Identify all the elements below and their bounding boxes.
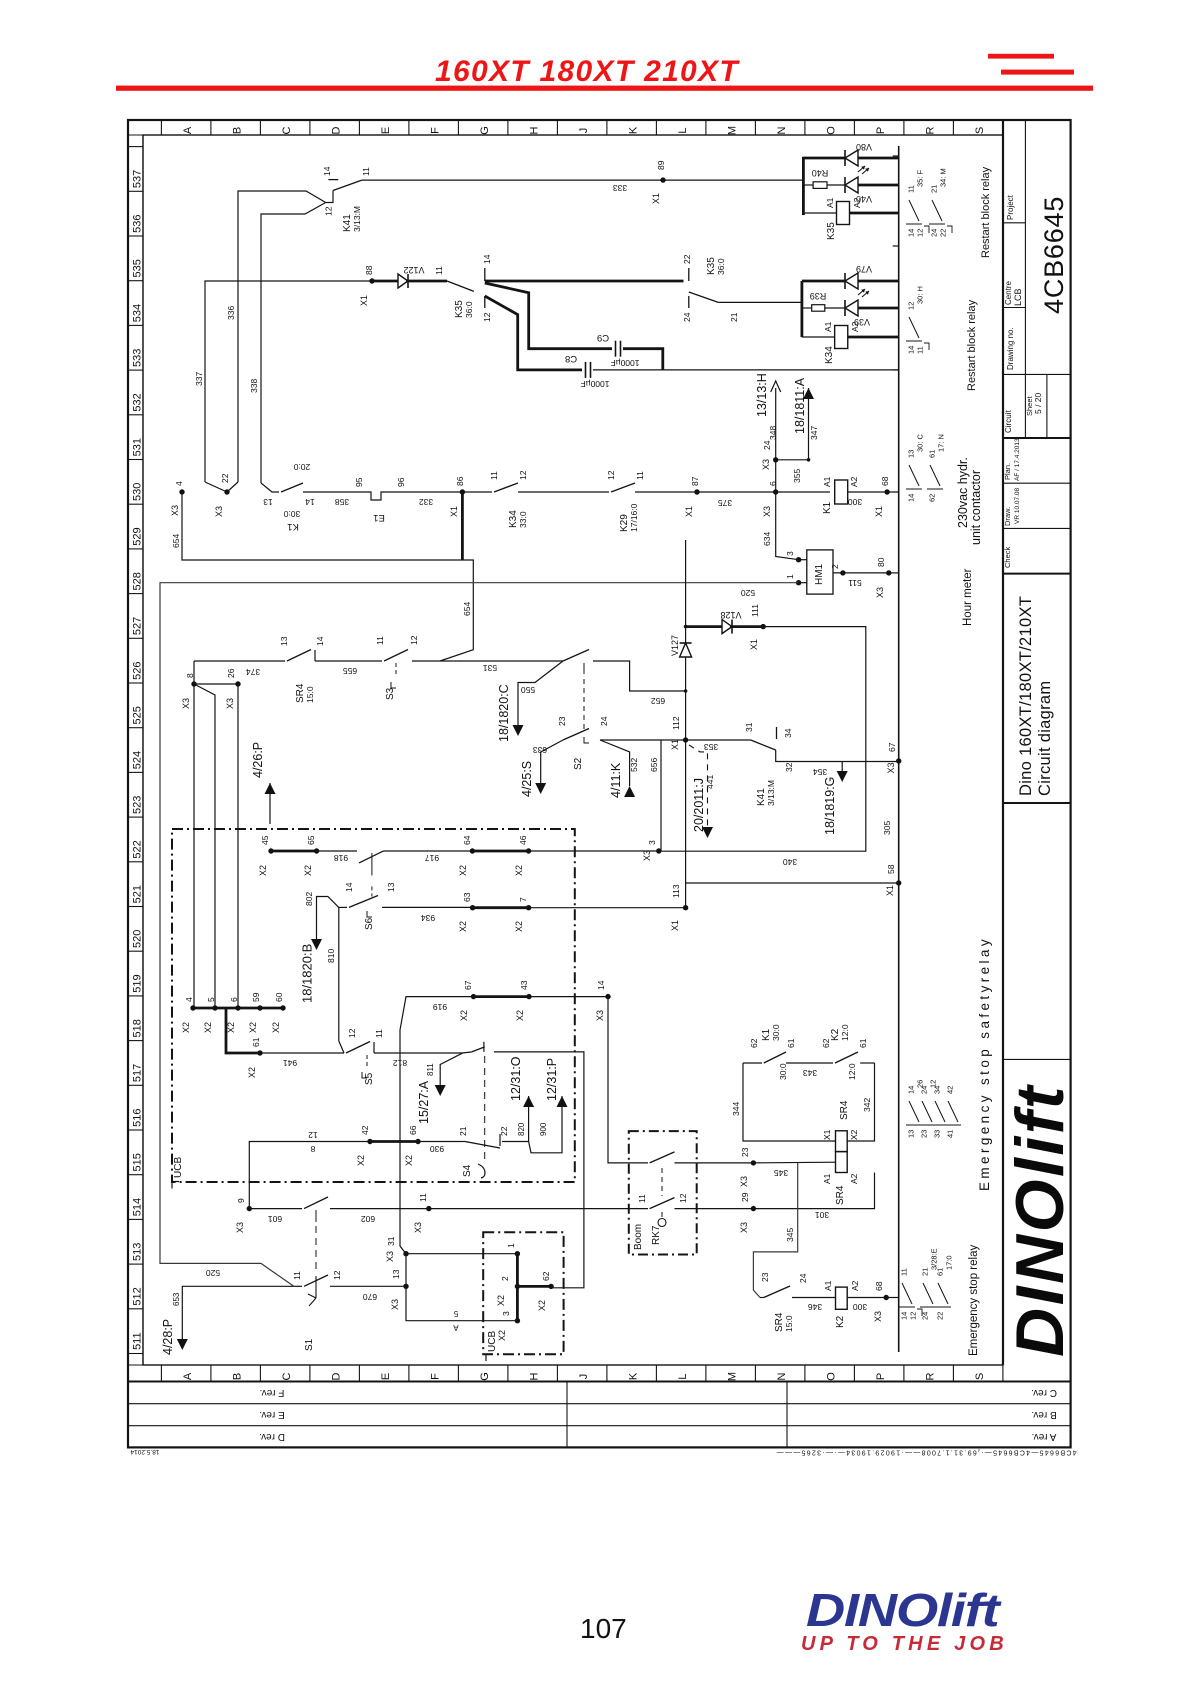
RK7 mechanical link (661, 1168, 663, 1196)
column label D top (309, 120, 311, 135)
svg-text:333: 333 (613, 183, 627, 193)
svg-text:X3: X3 (739, 1222, 749, 1233)
switch S1 lower contact with mechanical link (315, 1226, 317, 1272)
wire C8-C9 return to rail (593, 369, 899, 371)
svg-text:X2: X2 (271, 1022, 281, 1033)
svg-text:4CB6645—4CB6645—·⁁69.31.1.7008: 4CB6645—4CB6645—·⁁69.31.1.7008——·19029.1… (775, 1449, 1076, 1456)
wire 634 riser (776, 492, 799, 560)
diode V127 (680, 643, 692, 657)
sheet reference arrow 18/1819:G (841, 762, 843, 773)
svg-text:347: 347 (809, 426, 819, 440)
svg-text:527: 527 (132, 617, 144, 635)
wire 4/25:S branch (541, 740, 563, 784)
svg-text:61: 61 (858, 1038, 868, 1048)
terminal X1:68 (884, 489, 889, 494)
terminal bus X2:4 X2:5 X2:6 X2:59 X2:60 (193, 1007, 283, 1010)
svg-text:30:0: 30:0 (283, 509, 300, 519)
svg-text:18.5.2014: 18.5.2014 (130, 1448, 159, 1455)
svg-text:3: 3 (501, 1311, 511, 1316)
svg-text:X2: X2 (258, 865, 268, 876)
svg-text:42: 42 (946, 1086, 955, 1094)
svg-text:X1: X1 (670, 739, 680, 750)
column label B bottom (210, 1365, 212, 1382)
svg-text:42: 42 (360, 1125, 370, 1135)
wire 344 (743, 1063, 836, 1141)
column label C bottom (259, 1365, 261, 1382)
wire 941 (260, 1052, 344, 1054)
svg-text:J: J (578, 1374, 590, 1380)
svg-text:13: 13 (263, 497, 273, 507)
svg-text:88: 88 (364, 265, 374, 275)
column label S bottom (952, 1365, 954, 1382)
wire 354 row to X3:67 (776, 750, 899, 762)
svg-text:528: 528 (132, 572, 144, 590)
wire 670 (330, 1285, 406, 1287)
svg-text:12: 12 (332, 1270, 342, 1280)
svg-text:6: 6 (229, 997, 239, 1002)
svg-text:113: 113 (671, 884, 681, 898)
wire coil K2 to X3:68 (847, 1297, 899, 1299)
K34 lamp group left bus (801, 281, 804, 337)
svg-text:M: M (727, 126, 739, 135)
contact SR4 13-14 (15:0) (287, 650, 311, 662)
svg-text:529: 529 (132, 527, 144, 545)
svg-text:354: 354 (813, 767, 827, 777)
contact K1 13-14 (261, 483, 279, 492)
thick branch to X2:61 (226, 1008, 260, 1053)
resistor R39 (802, 307, 812, 309)
sheet reference arrow 4/28:P 653 (182, 1286, 293, 1340)
svg-text:X1: X1 (651, 193, 661, 204)
wire RK7 to X3:29 (697, 1208, 754, 1210)
svg-text:H: H (529, 126, 541, 134)
row label 532 (128, 369, 143, 371)
svg-text:652: 652 (651, 696, 665, 706)
svg-text:14: 14 (305, 497, 315, 507)
svg-text:14: 14 (344, 882, 354, 892)
svg-text:12: 12 (324, 206, 334, 216)
capacitor C8 1000uF (585, 362, 587, 378)
svg-text:14: 14 (315, 636, 325, 646)
svg-text:601: 601 (268, 1214, 282, 1224)
svg-text:3/13:M: 3/13:M (352, 206, 362, 232)
svg-text:441: 441 (705, 775, 715, 789)
svg-text:24: 24 (930, 229, 939, 237)
svg-text:33: 33 (933, 1130, 942, 1138)
svg-text:X3: X3 (739, 1176, 749, 1187)
wire 917 (383, 850, 472, 852)
svg-text:533: 533 (132, 349, 144, 367)
bottom ruler band line (128, 1364, 1003, 1366)
wire 337 (205, 281, 372, 482)
svg-text:H: H (529, 1372, 541, 1380)
svg-text:43: 43 (519, 980, 529, 990)
svg-text:X2: X2 (515, 1010, 525, 1021)
wire 374 row (194, 660, 285, 662)
svg-text:23: 23 (920, 1130, 929, 1138)
svg-text:12: 12 (308, 1130, 318, 1140)
svg-text:634: 634 (762, 532, 772, 546)
svg-text:22: 22 (939, 229, 948, 237)
svg-text:41: 41 (946, 1130, 955, 1138)
contact K35 22-24-21 (688, 268, 690, 281)
svg-text:K34: K34 (824, 346, 835, 364)
svg-text:Restart block relay: Restart block relay (980, 166, 992, 258)
svg-text:930: 930 (430, 1144, 444, 1154)
svg-text:A: A (182, 126, 194, 134)
svg-text:X2: X2 (497, 1330, 507, 1341)
wire 601 (249, 1208, 302, 1210)
svg-text:R: R (925, 1372, 937, 1380)
svg-text:23: 23 (557, 716, 567, 726)
svg-text:1: 1 (506, 1243, 516, 1248)
svg-text:34: M: 34: M (939, 168, 948, 187)
svg-text:13: 13 (279, 636, 289, 646)
svg-text:11: 11 (907, 185, 916, 193)
header logo red bar upper (988, 54, 1054, 59)
svg-text:602: 602 (361, 1214, 375, 1224)
LED V39 (845, 300, 858, 316)
svg-text:A: A (453, 1323, 459, 1332)
svg-text:C9: C9 (597, 332, 609, 343)
wire 355 to coil K1 (776, 491, 830, 493)
column label N top (754, 120, 756, 135)
wires X3:8/X3:26 risers to X2 bus (193, 684, 195, 1008)
row label 523 (128, 771, 143, 773)
svg-text:14: 14 (907, 229, 916, 237)
switch S4 mechanical link (484, 1056, 486, 1160)
svg-text:14: 14 (907, 1086, 916, 1094)
svg-text:22: 22 (499, 1126, 509, 1136)
row label 531 (128, 414, 143, 416)
svg-text:O: O (826, 126, 838, 135)
svg-text:X3: X3 (235, 1222, 245, 1233)
svg-text:A2: A2 (852, 197, 862, 208)
row label 520 (128, 906, 143, 908)
svg-text:X3: X3 (595, 1010, 605, 1021)
wire 301 to SR4 A2 (753, 1173, 874, 1209)
svg-text:AF / 17.4.2013: AF / 17.4.2013 (1014, 438, 1021, 481)
row label 537 (128, 146, 143, 148)
wire 810 (338, 907, 340, 1041)
svg-text:12: 12 (482, 312, 492, 322)
svg-text:654: 654 (171, 534, 181, 548)
svg-text:D rev.: D rev. (259, 1431, 285, 1442)
wire K35:21 to K34 lamp group (718, 301, 802, 303)
svg-text:3/13:M: 3/13:M (766, 780, 776, 806)
svg-text:520: 520 (206, 1268, 220, 1278)
relay coil K1 A1-A2 (835, 480, 848, 504)
svg-text:4: 4 (184, 997, 194, 1002)
column label B top (210, 120, 212, 135)
wire thick to V128 (686, 625, 722, 628)
sheet reference arrow 18/1811:A (803, 388, 814, 399)
svg-text:X3: X3 (762, 506, 772, 517)
wire to C8 (485, 296, 582, 370)
svg-text:V128: V128 (720, 610, 741, 620)
svg-text:340: 340 (783, 857, 797, 867)
row label 515 (128, 1129, 143, 1131)
svg-text:X3: X3 (390, 1299, 400, 1310)
svg-text:B rev.: B rev. (1031, 1409, 1056, 1420)
svg-text:900: 900 (539, 1122, 548, 1136)
svg-text:24: 24 (920, 1086, 929, 1094)
svg-text:X2: X2 (404, 1155, 414, 1166)
svg-text:unit contactor: unit contactor (969, 470, 983, 545)
svg-text:Boom: Boom (633, 1224, 644, 1250)
svg-text:61: 61 (928, 450, 937, 458)
svg-text:Draw.: Draw. (1003, 507, 1012, 526)
terminal X2:62 (517, 1285, 551, 1288)
svg-text:337: 337 (194, 372, 204, 386)
svg-text:X2: X2 (226, 1022, 236, 1033)
relay contact K41 3/13:M changeover (326, 191, 333, 203)
wire 654 riser to X1:86 (461, 492, 464, 560)
svg-text:96: 96 (396, 477, 406, 487)
svg-text:Dino 160XT/180XT/210XT: Dino 160XT/180XT/210XT (1017, 596, 1035, 796)
column label L bottom (655, 1365, 657, 1382)
svg-text:X2: X2 (356, 1155, 366, 1166)
column label N bottom (754, 1365, 756, 1382)
svg-text:512: 512 (132, 1287, 144, 1305)
wire 655 (315, 660, 382, 662)
top ruler band line (128, 134, 1003, 136)
terminal X3:6 (773, 489, 778, 494)
svg-text:C: C (281, 126, 293, 134)
switch S6 upper contact (359, 851, 383, 863)
svg-text:SR4: SR4 (839, 1100, 850, 1120)
header logo red bar lower (1001, 70, 1074, 75)
svg-text:230vac hydr.: 230vac hydr. (956, 457, 970, 528)
row label 525 (128, 682, 143, 684)
svg-text:A2: A2 (849, 476, 859, 487)
wire row 46 to X3:3 (529, 850, 659, 852)
svg-text:S2: S2 (573, 757, 584, 770)
terminal X1:86 (460, 489, 465, 494)
svg-text:21: 21 (458, 1126, 468, 1136)
svg-text:8: 8 (310, 1144, 315, 1154)
terminal X1:89 (660, 177, 665, 182)
svg-text:14: 14 (482, 254, 492, 264)
svg-text:344: 344 (731, 1102, 741, 1116)
svg-text:355: 355 (792, 469, 802, 483)
wire 918 (317, 850, 357, 852)
wire 652 (593, 661, 686, 691)
svg-text:66: 66 (408, 1125, 418, 1135)
wire X3:8 riser to SR4 row (193, 661, 195, 684)
terminal X1:58 on rail (896, 880, 901, 885)
svg-text:A1: A1 (823, 321, 833, 332)
svg-text:358: 358 (335, 497, 349, 507)
sheet reference arrow 18/1820:B (311, 939, 322, 950)
svg-text:A1: A1 (825, 197, 835, 208)
svg-text:11: 11 (900, 1268, 909, 1276)
svg-text:C8: C8 (565, 353, 577, 364)
svg-text:521: 521 (132, 885, 144, 903)
terminal X2:61 (257, 1050, 262, 1055)
switch S2 upper contact (563, 650, 589, 662)
svg-text:3: 3 (785, 551, 795, 556)
svg-text:X3: X3 (873, 1311, 883, 1322)
svg-text:11: 11 (637, 1194, 647, 1203)
svg-text:24: 24 (921, 1312, 930, 1320)
svg-text:61: 61 (251, 1037, 261, 1047)
terminal X3:67 on rail (896, 758, 901, 763)
column label G bottom (457, 1365, 459, 1382)
svg-text:332: 332 (419, 497, 433, 507)
svg-text:A1: A1 (822, 1173, 832, 1184)
wire 919 from X3:31 to X2:67 (400, 997, 474, 1254)
svg-text:64: 64 (462, 835, 472, 845)
svg-text:46: 46 (518, 835, 528, 845)
contact K34 33:0 (462, 491, 492, 493)
svg-text:24: 24 (682, 312, 692, 322)
svg-text:21: 21 (921, 1268, 930, 1276)
svg-text:22: 22 (220, 473, 230, 483)
row label 518 (128, 995, 143, 997)
relay coil K2 A1-A2 (836, 1287, 848, 1309)
left ruler band line (142, 135, 144, 1365)
svg-text:E: E (380, 1373, 392, 1380)
capacitor C9 1000uF (615, 341, 617, 357)
svg-text:X3: X3 (413, 1222, 423, 1233)
svg-text:A2: A2 (850, 321, 860, 332)
wire 375 (635, 491, 776, 493)
wire 820 arrow 12/31:O (502, 1096, 529, 1142)
svg-text:P: P (875, 1373, 887, 1380)
proximity switch RK7 lower contact 11-12 (629, 1208, 648, 1210)
terminal X3:31 (403, 1251, 408, 1256)
svg-text:R: R (925, 126, 937, 134)
svg-text:F: F (430, 1373, 442, 1380)
svg-text:Emergency stop safetyrelay: Emergency stop safetyrelay (977, 936, 992, 1191)
svg-text:934: 934 (421, 913, 435, 923)
terminal X3:22 (224, 489, 229, 494)
svg-text:11: 11 (916, 346, 925, 354)
svg-text:14: 14 (900, 1312, 909, 1320)
contact K2 61-62 (835, 1052, 858, 1063)
svg-text:346: 346 (808, 1302, 822, 1312)
column label F bottom (408, 1365, 410, 1382)
svg-text:X1: X1 (749, 639, 759, 650)
sheet outer border (128, 120, 1071, 1447)
contact K1 61-62 (743, 1062, 762, 1064)
svg-text:89: 89 (656, 160, 666, 170)
svg-text:C rev.: C rev. (1031, 1387, 1057, 1398)
dashed reference 20/2011:J with 441 (689, 745, 708, 828)
svg-text:12: 12 (409, 635, 419, 645)
wire 345 grey branch (753, 1163, 797, 1298)
diode V80 (803, 157, 845, 160)
svg-text:537: 537 (132, 170, 144, 188)
svg-text:L: L (677, 1373, 689, 1379)
svg-text:12: 12 (909, 1312, 918, 1320)
svg-text:11: 11 (375, 636, 385, 645)
row label 533 (128, 324, 143, 326)
wire 900 arrow 12/31:P (529, 1096, 562, 1153)
svg-text:348: 348 (768, 426, 778, 440)
svg-text:S6: S6 (364, 917, 375, 930)
svg-text:UCB: UCB (173, 1157, 184, 1178)
column label A bottom (160, 1365, 162, 1382)
row label 522 (128, 816, 143, 818)
svg-text:X2: X2 (849, 1129, 859, 1140)
svg-text:X1: X1 (670, 920, 680, 931)
svg-text:9: 9 (236, 1198, 246, 1203)
svg-text:160XT 180XT 210XT: 160XT 180XT 210XT (435, 55, 740, 88)
svg-text:67: 67 (887, 742, 897, 752)
svg-text:534: 534 (132, 304, 144, 322)
column label A top (160, 120, 162, 135)
terminal X3:11 (426, 1206, 431, 1211)
svg-text:4/11:K: 4/11:K (609, 762, 623, 798)
svg-text:1000µF: 1000µF (611, 358, 640, 368)
svg-text:Circuit diagram: Circuit diagram (1036, 681, 1054, 796)
terminal X3:8 (191, 681, 196, 686)
svg-text:6: 6 (768, 481, 778, 486)
svg-text:345: 345 (785, 1228, 795, 1242)
svg-text:11: 11 (418, 1193, 428, 1202)
svg-text:4/28:P: 4/28:P (161, 1319, 175, 1355)
svg-text:18/1820:C: 18/1820:C (497, 684, 511, 742)
svg-text:515: 515 (132, 1153, 144, 1171)
svg-text:523: 523 (132, 796, 144, 814)
wire 811 branch arrow 15/27:A (440, 1053, 463, 1086)
terminal pair X2:67 X2:43 (471, 994, 476, 999)
svg-text:338: 338 (249, 379, 259, 393)
svg-text:X2: X2 (458, 865, 468, 876)
svg-text:2: 2 (830, 564, 840, 569)
diode V122 (372, 280, 398, 283)
svg-text:36:0: 36:0 (464, 301, 474, 318)
svg-text:516: 516 (132, 1108, 144, 1126)
terminal pair X2:42 X2:66 (367, 1139, 372, 1144)
svg-text:Circuit: Circuit (1004, 410, 1013, 433)
svg-text:RK7: RK7 (651, 1225, 662, 1245)
svg-text:X2: X2 (181, 1022, 191, 1033)
svg-text:VR 10.07.08: VR 10.07.08 (1014, 487, 1021, 524)
svg-text:68: 68 (874, 1281, 884, 1291)
wire X1:58 row (686, 882, 899, 884)
header red rule (116, 86, 1093, 91)
svg-text:F: F (430, 127, 442, 134)
page number 107 (580, 1613, 627, 1645)
wire 812 (374, 1052, 462, 1054)
svg-text:1000µF: 1000µF (581, 379, 610, 389)
svg-text:HM1: HM1 (814, 563, 825, 585)
column label P top (853, 120, 855, 135)
svg-text:X2: X2 (458, 921, 468, 932)
svg-text:87: 87 (690, 476, 700, 486)
svg-text:24: 24 (762, 440, 772, 450)
row label 511 (128, 1308, 143, 1310)
svg-text:45: 45 (260, 835, 270, 845)
wire X2:43 to X3:14 (529, 996, 608, 998)
svg-text:Project: Project (1006, 194, 1015, 220)
svg-text:58: 58 (886, 864, 896, 874)
row label 524 (128, 727, 143, 729)
wire 336 (238, 191, 326, 482)
wire X3:11 to RK7 lower (429, 1208, 629, 1210)
svg-text:G: G (479, 126, 491, 135)
svg-text:63: 63 (462, 892, 472, 902)
svg-text:A: A (182, 1372, 194, 1380)
relay coil K34 A1-A2 (802, 336, 835, 338)
wire 602 (330, 1208, 429, 1210)
svg-text:13: 13 (907, 1130, 916, 1138)
svg-text:D: D (331, 1372, 343, 1380)
svg-text:653: 653 (172, 1292, 181, 1306)
